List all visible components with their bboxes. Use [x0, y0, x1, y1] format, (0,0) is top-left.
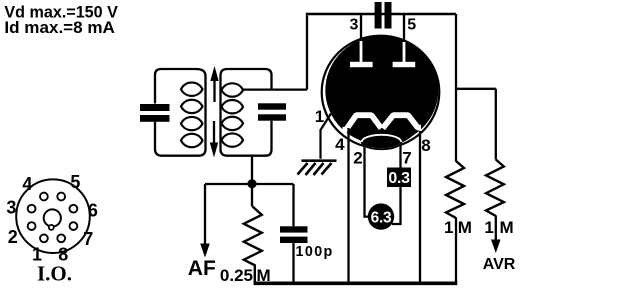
svg-text:2: 2 — [8, 227, 18, 247]
capacitor C1 bottom plate — [140, 115, 170, 122]
ground bar — [302, 159, 337, 162]
label box 0.3 — [387, 168, 411, 188]
wire pin7 lead upper — [399, 145, 401, 168]
ground hatch 2 — [306, 163, 316, 175]
pin 3 lead inside white — [360, 41, 363, 62]
svg-text:8: 8 — [421, 136, 430, 155]
capacitor C4 top plate — [280, 226, 308, 232]
cathode left — [343, 115, 382, 130]
socket pin hole 2 — [28, 222, 36, 230]
tube V1 black interior — [325, 36, 438, 145]
socket pin hole 5 — [57, 193, 65, 201]
socket pin hole 6 — [70, 205, 78, 213]
inductor L2 loop 2 — [222, 100, 244, 113]
socket pin hole 3 — [28, 205, 36, 213]
wire AVR riser — [495, 89, 497, 160]
core arrow down shaft — [213, 121, 215, 144]
svg-text:M: M — [500, 218, 514, 237]
socket pin hole 4 — [40, 193, 48, 201]
svg-text:3: 3 — [350, 16, 359, 33]
resistor R2 1M zigzag — [446, 161, 464, 218]
capacitor C4 bottom plate — [280, 237, 308, 243]
junction node — [247, 179, 256, 188]
svg-text:1: 1 — [444, 218, 453, 237]
svg-text:AF: AF — [188, 257, 216, 280]
capacitor C1 top plate — [140, 104, 170, 111]
cathode right — [383, 115, 421, 128]
inductor L1 loop 3 — [181, 117, 203, 130]
socket key nub — [49, 225, 54, 230]
wire right coil left side — [221, 69, 228, 156]
svg-text:Id max.=8 mA: Id max.=8 mA — [4, 19, 115, 37]
resistor R1 zigzag — [244, 207, 262, 284]
wire tap to riser — [243, 88, 307, 90]
AVR arrowhead — [491, 240, 501, 254]
inductor L2 loop 3 — [222, 117, 244, 130]
svg-text:5: 5 — [70, 172, 80, 192]
wire right riser upper — [455, 14, 457, 162]
inductor L1 loop 4 — [181, 134, 203, 147]
wire pin2 lead — [365, 144, 369, 217]
wire branch to AVR — [456, 88, 496, 90]
svg-text:0.3: 0.3 — [388, 170, 410, 187]
svg-text:100p: 100p — [296, 244, 334, 260]
wire right coil top lead with jog — [227, 69, 272, 90]
capacitor C3 left plate — [375, 2, 382, 29]
svg-text:AVR: AVR — [483, 256, 516, 273]
svg-text:7: 7 — [83, 229, 93, 249]
wire pin1 to ground — [321, 114, 332, 159]
inductor L1 loop 1 — [181, 83, 203, 96]
capacitor C2 bottom plate — [258, 114, 286, 120]
pin 3 lead outside — [360, 14, 362, 41]
svg-text:0.25: 0.25 — [220, 266, 253, 285]
wire AF drop — [204, 184, 206, 245]
svg-text:6.3: 6.3 — [371, 209, 392, 226]
capacitor C4 lead top — [292, 184, 294, 226]
svg-text:5: 5 — [407, 16, 416, 33]
core arrow down head — [210, 143, 218, 158]
socket pin hole 7 — [70, 222, 78, 230]
inductor L2 loop 4 — [222, 133, 244, 146]
AF arrowhead — [200, 244, 210, 258]
capacitor C4 lead bottom — [292, 243, 294, 283]
ground hatch 3 — [314, 163, 324, 175]
tube V1 lower lens — [347, 120, 420, 146]
pin 5 lead inside white — [403, 42, 406, 62]
resistor R1 0.25M lead top — [251, 188, 253, 207]
tube V1 envelope — [322, 36, 440, 149]
capacitor C2 top plate — [258, 103, 286, 109]
wire pin7 lead lower — [392, 186, 401, 224]
wire AF branch horizontal — [205, 183, 294, 185]
svg-text:1: 1 — [315, 107, 324, 126]
svg-text:M: M — [458, 218, 472, 237]
anode plate right — [393, 62, 416, 67]
wire secondary bottom drop — [251, 156, 253, 183]
wire right coil bottom lead — [228, 121, 272, 156]
socket pin hole 1 — [40, 234, 48, 242]
heater supply circle 6.3 — [368, 203, 394, 229]
svg-text:I.O.: I.O. — [37, 262, 72, 286]
inductor L2 loop 1 — [222, 83, 244, 96]
core arrow up shaft — [213, 79, 215, 102]
wire left tank loop — [155, 69, 206, 156]
pin 5 lead outside — [403, 14, 405, 42]
wire AVR shaft — [495, 216, 497, 242]
socket center hole — [44, 209, 61, 226]
wire pin8 lead — [419, 131, 421, 283]
ground hatch 1 — [298, 163, 308, 175]
svg-text:6: 6 — [88, 200, 98, 220]
wire right riser lower — [455, 218, 457, 284]
wire top rail — [306, 13, 456, 16]
svg-text:3: 3 — [6, 198, 16, 218]
svg-text:7: 7 — [402, 149, 411, 168]
resistor R3 1M zigzag — [486, 160, 504, 217]
bottom rail — [254, 281, 458, 285]
svg-text:4: 4 — [22, 174, 32, 194]
wire pin4 lead — [347, 128, 349, 283]
svg-text:2: 2 — [353, 149, 362, 168]
socket outline circle — [16, 179, 90, 253]
heater ellipse black bottom arc — [362, 142, 401, 149]
svg-text:4: 4 — [335, 135, 345, 154]
capacitor C3 right plate — [385, 2, 392, 29]
heater ellipse white arc — [362, 135, 401, 149]
wire riser to top rail — [306, 15, 308, 89]
inductor L1 loop 2 — [181, 100, 203, 113]
anode plate left — [350, 62, 373, 67]
core arrow up head — [210, 66, 218, 81]
svg-text:1: 1 — [484, 218, 493, 237]
socket pin hole 8 — [57, 234, 65, 242]
ground hatch 4 — [322, 163, 332, 175]
